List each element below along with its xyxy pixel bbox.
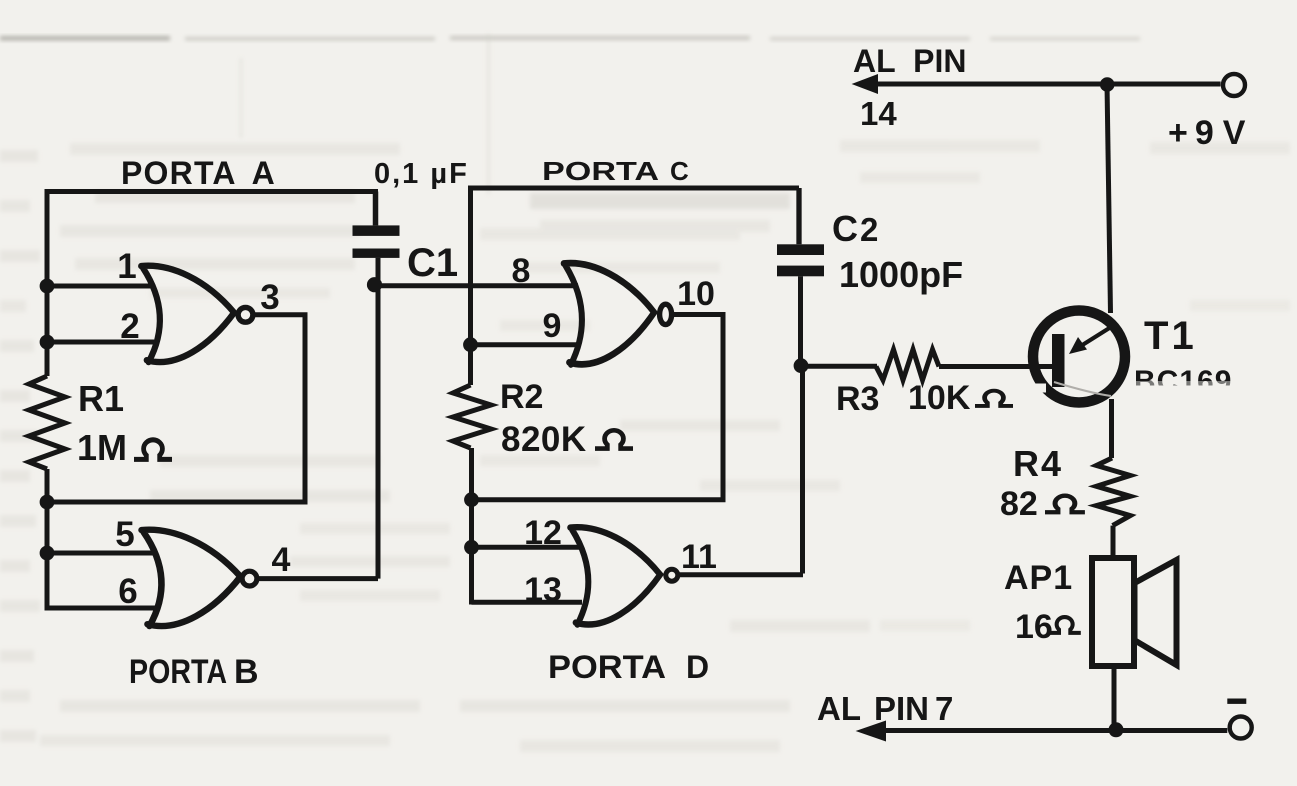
- resistor R3: [876, 350, 939, 381]
- svg-text:9: 9: [543, 307, 562, 345]
- wire: gate A input pin 1: [47, 284, 152, 289]
- svg-text:C1: C1: [407, 241, 458, 285]
- svg-text:10: 10: [677, 275, 715, 313]
- svg-text:C2: C2: [832, 208, 878, 249]
- resistor R4: [1096, 458, 1130, 526]
- NOR gate U1C (PORTA C): [564, 263, 655, 364]
- junction dot: +9V node: [1100, 77, 1115, 92]
- wire: gate C output pin 10 feedback loop to R2 bottom: [472, 315, 724, 500]
- terminal minus bar: [1227, 699, 1246, 704]
- NOR gate U1A (PORTA A): [141, 266, 234, 362]
- ohm symbol of R1 value: [134, 440, 172, 460]
- wire: PORTA C left vertical (below R2): [469, 448, 474, 605]
- wire: node to resistor R3: [801, 364, 877, 369]
- bubble of gate D output: [666, 569, 678, 581]
- svg-text:820K: 820K: [501, 420, 587, 459]
- svg-text:R3: R3: [836, 380, 879, 418]
- speaker AP1 body: [1092, 558, 1134, 666]
- svg-text:D: D: [686, 649, 709, 685]
- svg-text:16: 16: [1015, 608, 1053, 646]
- ohm symbol of R3 value: [975, 391, 1013, 406]
- wire: PORTA C left vertical (to R2): [468, 186, 473, 386]
- wire: gate D input pin 12: [472, 545, 581, 550]
- wire: PORTA A left vertical (below R1): [45, 469, 50, 611]
- svg-text:11: 11: [681, 538, 717, 576]
- svg-text:4: 4: [272, 541, 291, 579]
- bubble of gate B output: [242, 571, 257, 586]
- arrowhead AL PIN 14: [852, 74, 878, 94]
- svg-text:10K: 10K: [908, 379, 971, 417]
- svg-text:13: 13: [524, 571, 562, 609]
- transistor T1 base bar: [1052, 334, 1065, 387]
- wire: C1 node to gate C input pin 8: [375, 283, 579, 288]
- svg-text:PORTAA: PORTAA: [121, 155, 276, 191]
- svg-text:C: C: [670, 156, 689, 186]
- wire: right vertical from C2 bottom down to pin 11 level: [801, 276, 803, 573]
- label BC169 (faded): [1126, 365, 1266, 399]
- svg-text:1: 1: [117, 247, 136, 286]
- transistor T1 emitter line with arrow: [1076, 327, 1111, 349]
- svg-text:14: 14: [860, 95, 897, 132]
- wire: right vertical of PORTA A block (pin4 / C1 bottom lead): [376, 258, 381, 579]
- wire: gate C input pin 9: [471, 342, 581, 347]
- NOR gate U1D (PORTA D): [570, 527, 660, 624]
- junction dot: bottom rail node: [1109, 722, 1124, 737]
- junction dot: input 5 node: [40, 546, 55, 561]
- svg-text:5: 5: [115, 515, 134, 554]
- svg-text:2: 2: [120, 307, 139, 346]
- wire: C2 top lead: [796, 188, 801, 244]
- svg-text:82: 82: [1000, 485, 1038, 523]
- svg-text:AP1: AP1: [1004, 559, 1073, 597]
- wire: collector down to R4: [1109, 399, 1114, 458]
- junction dot: input 1 node: [40, 279, 55, 294]
- svg-text:0,1 µF: 0,1 µF: [374, 158, 469, 190]
- svg-text:1M: 1M: [77, 427, 127, 468]
- wire: gate B input pin 6: [47, 606, 156, 611]
- junction dot: C2 bottom node: [794, 358, 809, 373]
- wire: PORTA C top rail: [471, 186, 800, 191]
- junction dot: C1 bottom node: [367, 277, 382, 292]
- wire: R4 to speaker: [1111, 526, 1116, 558]
- svg-text:3: 3: [260, 278, 279, 317]
- white scan band over circle left rim: [1026, 384, 1046, 393]
- svg-text:R1: R1: [78, 378, 124, 419]
- svg-text:R4: R4: [1013, 443, 1063, 484]
- svg-text:8: 8: [512, 252, 531, 290]
- transistor T1 collector faint line: [1054, 382, 1111, 396]
- wire: gate B output pin 4 up to top rail: [258, 576, 379, 581]
- ohm symbol of R4 value: [1045, 496, 1085, 513]
- capacitor C1 plates: [353, 225, 400, 258]
- junction dot: R2 bottom node: [464, 492, 479, 507]
- arrowhead AL PIN 7: [856, 721, 886, 742]
- terminal minus circle: [1230, 717, 1252, 739]
- svg-text:6: 6: [118, 572, 137, 611]
- wire: AL PIN 14 arrow line: [864, 82, 1221, 87]
- faint scan artifacts (decorative): [0, 36, 1140, 41]
- wire: R3 to transistor base: [939, 364, 1053, 369]
- NOR gate U1B (PORTA B): [142, 530, 241, 626]
- svg-text:B: B: [234, 653, 259, 691]
- junction dot: input 2 node: [40, 335, 55, 350]
- wire: PORTA A left vertical (top part, to R1): [45, 189, 50, 376]
- wire: speaker to bottom rail: [1112, 666, 1117, 730]
- junction dot: R1 bottom node: [40, 495, 55, 510]
- svg-text:R2: R2: [500, 378, 543, 416]
- svg-text:+9V: +9V: [1168, 114, 1246, 152]
- wire: PORTA A top rail: [47, 189, 378, 194]
- ohm symbol of AP1 value: [1049, 617, 1081, 633]
- wire: +9V rail into collector: [1107, 84, 1111, 313]
- wire: gate D output pin 11 to right vertical: [679, 572, 803, 577]
- wire: gate D input pin 13: [472, 600, 583, 605]
- svg-text:1000pF: 1000pF: [839, 254, 963, 295]
- svg-text:PORTA: PORTA: [542, 156, 659, 186]
- wire: gate A output pin 3 loop to R1 bottom: [47, 315, 305, 502]
- transistor T1 circle: [1033, 311, 1125, 403]
- speaker AP1 horn: [1135, 560, 1177, 665]
- resistor R2: [453, 385, 491, 448]
- resistor R1: [29, 376, 65, 469]
- junction dot: input 9 node: [463, 337, 478, 352]
- junction dot: input 12 node: [464, 540, 479, 555]
- capacitor C2 plates: [777, 244, 824, 276]
- wire: AL PIN 7 bottom rail: [864, 728, 1227, 733]
- ohm symbol of R2 value: [595, 430, 633, 448]
- wire: gate A input pin 2: [47, 340, 154, 345]
- wire: gate B input pin 5: [47, 551, 154, 556]
- svg-text:PORTA: PORTA: [129, 653, 227, 691]
- bubble of gate A output: [238, 307, 253, 322]
- bubble of gate C output: [660, 304, 672, 324]
- svg-text:PORTA: PORTA: [548, 649, 666, 685]
- svg-text:12: 12: [524, 514, 562, 552]
- terminal +9V circle: [1223, 74, 1245, 96]
- wire: C1 top lead: [373, 192, 379, 226]
